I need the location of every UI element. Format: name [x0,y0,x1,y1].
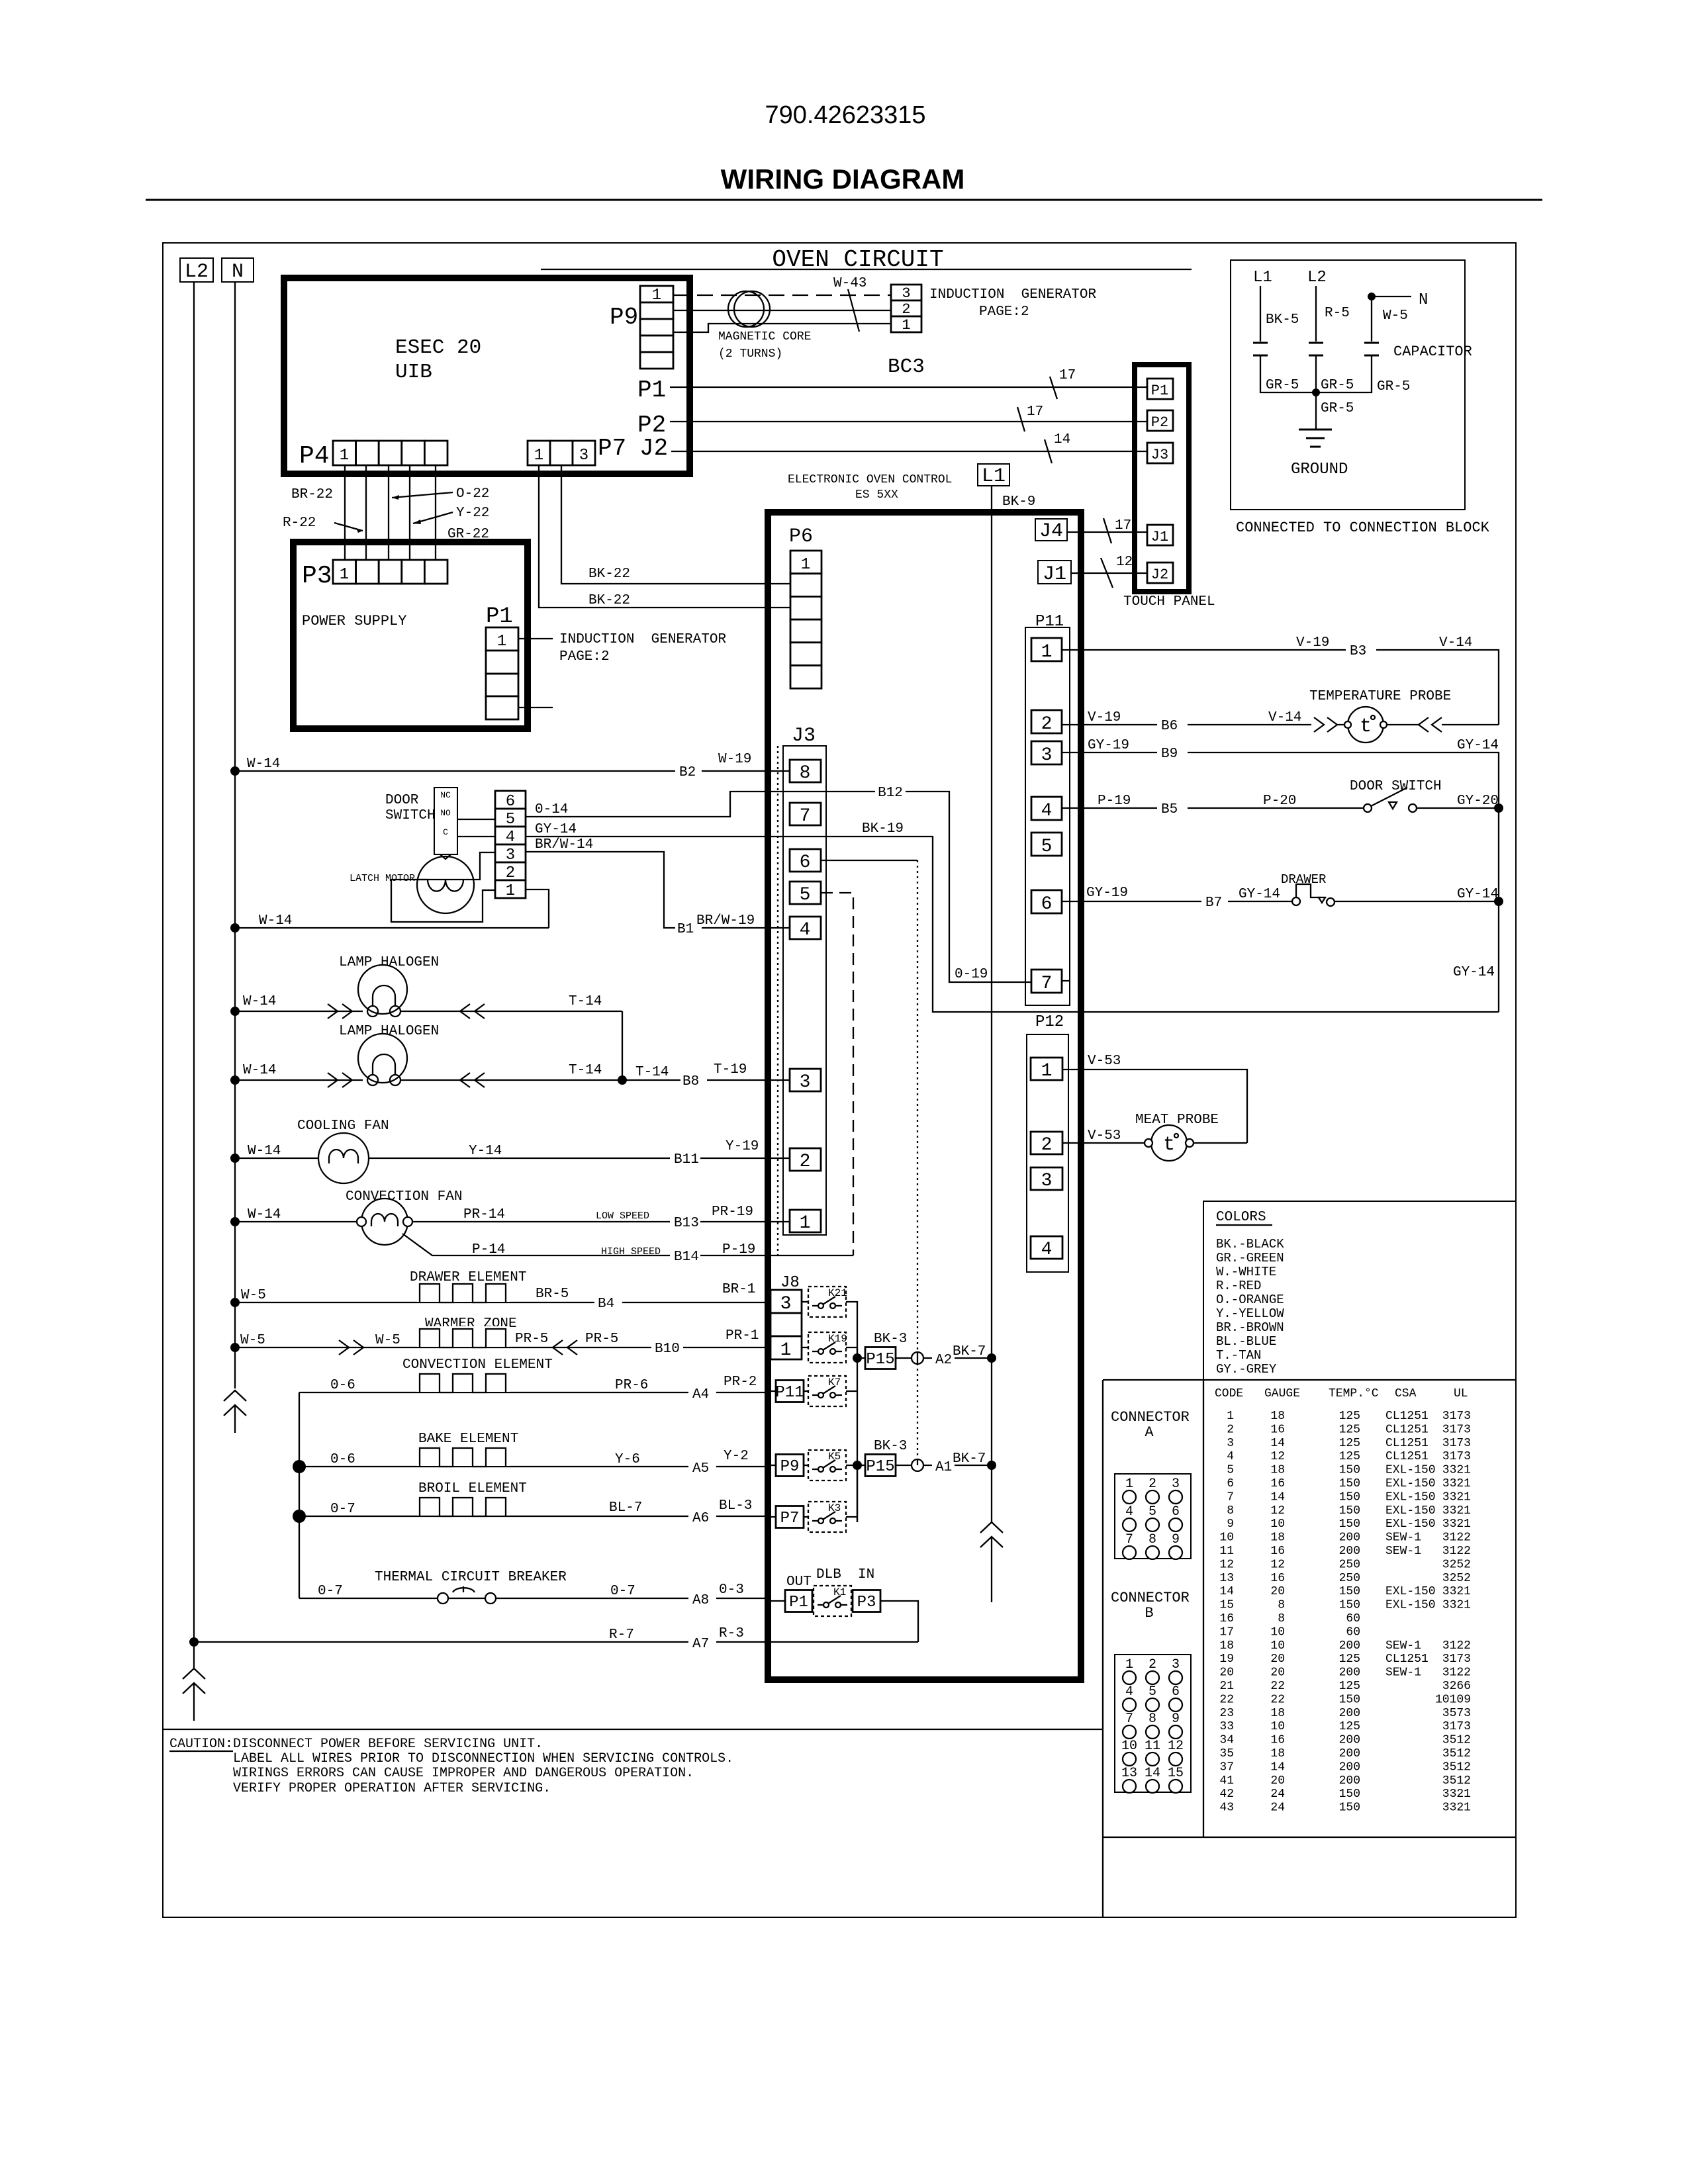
svg-text:1: 1 [800,1213,811,1234]
svg-text:0-7: 0-7 [318,1584,343,1599]
off-page arrow L2 rail [183,1668,205,1679]
wire W-14 latch motor row [235,927,549,929]
svg-text:ESEC 20: ESEC 20 [395,336,481,359]
svg-text:EXL-150: EXL-150 [1385,1518,1436,1531]
svg-text:17: 17 [1027,404,1043,420]
svg-text:B2: B2 [679,765,696,780]
svg-text:14: 14 [1145,1766,1160,1781]
svg-text:2: 2 [1227,1423,1234,1436]
svg-text:W-14: W-14 [243,1063,276,1078]
svg-text:R-22: R-22 [283,516,316,531]
svg-text:0-3: 0-3 [719,1582,744,1598]
svg-text:12: 12 [1219,1558,1234,1571]
svg-text:OUT: OUT [786,1574,812,1590]
svg-text:3512: 3512 [1442,1734,1471,1747]
svg-text:200: 200 [1339,1707,1360,1720]
wire N rail [234,282,236,1388]
svg-text:GY-14: GY-14 [1239,887,1280,902]
svg-text:PR-6: PR-6 [615,1378,648,1393]
svg-text:1: 1 [534,447,543,465]
node L1 box [978,464,1009,486]
svg-text:BL-3: BL-3 [719,1498,752,1514]
latch motor top link to door switch [440,854,451,859]
svg-text:P15: P15 [866,1458,894,1476]
svg-text:INDUCTION GENERATOR: INDUCTION GENERATOR [559,632,726,647]
svg-text:W.-WHITE: W.-WHITE [1216,1265,1276,1279]
svg-text:0-6: 0-6 [330,1452,355,1467]
svg-text:EXL-150: EXL-150 [1385,1490,1436,1504]
svg-text:CONNECTOR: CONNECTOR [1111,1590,1190,1606]
svg-text:BR-5: BR-5 [536,1287,569,1302]
svg-text:A5: A5 [692,1461,709,1477]
svg-text:P9: P9 [610,304,638,331]
svg-text:13: 13 [1121,1766,1137,1781]
svg-text:7: 7 [1227,1490,1234,1504]
svg-text:24: 24 [1270,1788,1285,1801]
svg-text:CSA: CSA [1395,1387,1417,1400]
svg-text:P15: P15 [866,1351,894,1369]
svg-text:1: 1 [1041,1061,1053,1081]
svg-text:0-7: 0-7 [610,1584,635,1599]
svg-text:ELECTRONIC OVEN CONTROL: ELECTRONIC OVEN CONTROL [788,473,952,486]
svg-text:16: 16 [1270,1734,1285,1747]
svg-text:12: 12 [1270,1450,1285,1463]
svg-text:250: 250 [1339,1558,1360,1571]
touch panel cell P2 [1147,410,1173,431]
svg-text:A8: A8 [692,1593,709,1608]
svg-text:3173: 3173 [1442,1720,1471,1733]
svg-text:TOUCH PANEL: TOUCH PANEL [1123,594,1215,610]
J3 cell 6 [790,849,821,872]
svg-text:B3: B3 [1350,644,1366,659]
svg-text:GR-5: GR-5 [1321,401,1354,416]
svg-text:8: 8 [800,763,811,784]
wire BK-22 (P7.2 to P6.2) [561,465,790,584]
svg-text:0-14: 0-14 [535,802,568,817]
svg-text:A2: A2 [935,1353,952,1368]
svg-text:12: 12 [1168,1739,1184,1754]
svg-text:13: 13 [1219,1572,1234,1585]
svg-text:3321: 3321 [1442,1518,1471,1531]
svg-text:3122: 3122 [1442,1639,1471,1653]
svg-text:Y-19: Y-19 [726,1139,759,1154]
wire P11.7 stub from 0-19 [1062,980,1070,981]
J3 cell 1 [790,1210,821,1232]
svg-text:WIRING DIAGRAM: WIRING DIAGRAM [721,163,965,195]
svg-text:8: 8 [1149,1532,1156,1547]
touch panel cell J2 [1147,563,1173,583]
svg-text:Y.-YELLOW: Y.-YELLOW [1216,1306,1284,1321]
svg-text:P-19: P-19 [1098,794,1131,809]
svg-text:1: 1 [1041,642,1053,662]
svg-text:BL-7: BL-7 [609,1500,642,1516]
svg-text:CL1251: CL1251 [1385,1450,1429,1463]
svg-text:P4: P4 [299,442,330,471]
svg-text:10: 10 [1270,1720,1285,1733]
svg-text:IN: IN [858,1567,874,1582]
svg-text:0-6: 0-6 [330,1378,355,1393]
svg-text:BR-1: BR-1 [722,1282,755,1297]
svg-text:LATCH MOTOR: LATCH MOTOR [350,873,415,884]
svg-text:t: t [1360,715,1372,738]
P12 cell 1 [1031,1058,1062,1080]
wire J3.6 to A-rows vertical [821,860,917,861]
svg-text:15: 15 [1219,1599,1234,1612]
svg-text:NC: NC [440,790,451,800]
svg-text:9: 9 [1172,1711,1180,1727]
svg-text:C: C [443,827,448,837]
svg-text:5: 5 [1041,837,1053,857]
wire BR/W-14 / B1 / BR/W-19 route (cell3 to J3.4) [526,852,790,928]
svg-text:2: 2 [800,1152,811,1172]
node J1 box [1038,561,1071,584]
svg-text:200: 200 [1339,1666,1360,1680]
svg-text:MEAT PROBE: MEAT PROBE [1135,1113,1219,1128]
svg-text:W-5: W-5 [1383,308,1408,324]
relay bus vertical [857,1358,858,1522]
wire W-43 pin2 [673,310,891,311]
svg-text:P-14: P-14 [472,1242,505,1257]
svg-text:K21: K21 [828,1287,847,1299]
svg-text:J3: J3 [792,725,816,747]
relay K21 (drawer element) [802,1301,808,1302]
svg-text:A: A [1145,1424,1154,1441]
svg-text:BK-7: BK-7 [953,1451,986,1467]
svg-text:3173: 3173 [1442,1410,1471,1423]
svg-text:3: 3 [1227,1437,1234,1450]
svg-text:DOOR SWITCH: DOOR SWITCH [1350,779,1442,794]
svg-text:6: 6 [1172,1684,1180,1700]
connector B pin grid [1115,1655,1191,1792]
wires GR-5 to ground bus [1260,355,1372,392]
svg-text:J1: J1 [1151,529,1168,545]
svg-text:UL: UL [1454,1387,1468,1400]
svg-text:8: 8 [1278,1599,1285,1612]
svg-text:18: 18 [1270,1707,1285,1720]
svg-text:5: 5 [1227,1464,1234,1477]
wires P4 to P3 (BR-22,R-22,O-22,Y-22,GR-22) [344,465,346,560]
relay K7 (convection element) [771,1390,776,1392]
svg-text:W-14: W-14 [248,1144,281,1159]
svg-text:B12: B12 [878,786,903,801]
J3 cell 8 [790,760,821,782]
svg-text:W-14: W-14 [248,1207,281,1222]
svg-text:PAGE:2: PAGE:2 [559,649,610,664]
svg-text:14: 14 [1270,1437,1285,1450]
svg-text:P11: P11 [775,1384,804,1402]
ground symbol [1315,392,1317,430]
slash 14 on J2 wire [1045,439,1052,463]
svg-text:LABEL ALL WIRES PRIOR TO DISCO: LABEL ALL WIRES PRIOR TO DISCONNECTION W… [233,1751,733,1766]
svg-text:DOOR: DOOR [385,793,419,808]
svg-text:BK-9: BK-9 [1002,494,1035,510]
svg-text:W-19: W-19 [718,752,751,767]
svg-text:125: 125 [1339,1720,1360,1733]
svg-text:1: 1 [1125,1477,1133,1492]
svg-text:16: 16 [1270,1572,1285,1585]
svg-text:T-14: T-14 [569,1063,602,1078]
svg-text:PR-1: PR-1 [726,1328,759,1343]
touch panel cell J3 [1147,443,1173,463]
svg-text:BK-5: BK-5 [1266,312,1299,328]
svg-text:22: 22 [1270,1693,1285,1706]
svg-text:3: 3 [800,1072,811,1093]
P11 cell 2 [1031,710,1062,733]
svg-text:T-14: T-14 [569,994,602,1009]
svg-text:EXL-150: EXL-150 [1385,1585,1436,1598]
wire L2 rail [193,282,195,1668]
J3 cell 3 [790,1069,821,1091]
connector induction generator (3 cells) [891,285,921,300]
svg-text:GROUND: GROUND [1291,461,1348,478]
P11 cell 6 [1031,890,1062,913]
svg-text:J4: J4 [1039,520,1063,543]
svg-text:BR/W-14: BR/W-14 [535,837,593,852]
svg-text:J3: J3 [1151,447,1168,463]
svg-text:B8: B8 [682,1074,699,1089]
svg-text:3: 3 [780,1294,792,1314]
svg-text:CL1251: CL1251 [1385,1423,1429,1436]
svg-text:1: 1 [652,287,661,304]
wire J3.5 dashed to B14 riser [821,893,853,1255]
svg-text:NO: NO [440,808,451,818]
svg-text:W-14: W-14 [259,913,292,929]
svg-text:GR-5: GR-5 [1377,379,1410,394]
svg-text:A4: A4 [692,1387,709,1402]
svg-text:CONVECTION FAN: CONVECTION FAN [346,1189,462,1205]
svg-text:BR.-BROWN: BR.-BROWN [1216,1320,1284,1335]
svg-text:200: 200 [1339,1531,1360,1545]
svg-text:7: 7 [1125,1711,1133,1727]
svg-text:W-43: W-43 [833,276,867,291]
J3 cell 7 [790,803,821,825]
svg-text:VERIFY PROPER OPERATION AFTER: VERIFY PROPER OPERATION AFTER SERVICING. [233,1781,551,1796]
svg-text:6: 6 [1172,1504,1180,1520]
wire cell1 right down to W-14 row [526,889,549,928]
svg-text:8: 8 [1227,1504,1234,1518]
wire W-43 pin3 with step [673,324,891,332]
svg-text:BK-22: BK-22 [588,593,630,608]
svg-text:K19: K19 [828,1333,847,1345]
svg-text:WIRINGS ERRORS CAN CAUSE IMPRO: WIRINGS ERRORS CAN CAUSE IMPROPER AND DA… [233,1766,694,1781]
svg-text:Y-2: Y-2 [724,1449,749,1464]
svg-text:7: 7 [1041,974,1053,994]
wire J4 to touch J1 with slash 17 [1067,531,1147,533]
svg-text:200: 200 [1339,1747,1360,1760]
svg-text:CONNECTED TO CONNECTION BLOCK: CONNECTED TO CONNECTION BLOCK [1236,520,1490,536]
svg-text:4: 4 [1041,801,1053,821]
svg-text:B1: B1 [677,922,694,937]
svg-text:T-14: T-14 [635,1065,669,1080]
svg-text:125: 125 [1339,1410,1360,1423]
svg-text:O.-ORANGE: O.-ORANGE [1216,1293,1284,1307]
svg-text:10109: 10109 [1435,1693,1471,1706]
svg-text:Y-22: Y-22 [456,506,489,521]
wire motor left loop to cell1 [391,880,495,922]
svg-text:125: 125 [1339,1653,1360,1666]
svg-text:1: 1 [1125,1657,1133,1672]
svg-text:GR.-GREEN: GR.-GREEN [1216,1251,1284,1265]
svg-text:1: 1 [340,566,349,584]
svg-text:P-20: P-20 [1263,794,1296,809]
svg-text:CAPACITOR: CAPACITOR [1393,343,1472,360]
svg-text:W-5: W-5 [241,1288,266,1303]
svg-text:BK.-BLACK: BK.-BLACK [1216,1237,1284,1251]
wire P11.3 GY-19 B9 GY-14 rail [1062,752,1499,1012]
svg-text:16: 16 [1219,1612,1234,1625]
wire P3 to A7 row [880,1601,918,1642]
svg-text:K1: K1 [833,1586,846,1598]
svg-text:200: 200 [1339,1774,1360,1788]
svg-text:T.-TAN: T.-TAN [1216,1348,1261,1363]
svg-text:9: 9 [1227,1518,1234,1531]
svg-text:GY-19: GY-19 [1086,886,1128,901]
svg-text:125: 125 [1339,1680,1360,1693]
svg-text:200: 200 [1339,1639,1360,1653]
svg-text:PR-14: PR-14 [463,1207,505,1222]
svg-text:3512: 3512 [1442,1774,1471,1788]
svg-text:150: 150 [1339,1518,1360,1531]
wire P11.1 V-19 B3 V-14 (temp probe top) [1062,650,1499,725]
svg-text:L1: L1 [1253,269,1272,287]
svg-text:2: 2 [1149,1477,1156,1492]
svg-text:P7: P7 [780,1510,800,1527]
wire BK-5 lead [1260,286,1261,341]
svg-text:3: 3 [579,447,588,465]
svg-text:3: 3 [1041,745,1053,766]
svg-text:24: 24 [1270,1801,1285,1815]
svg-text:EXL-150: EXL-150 [1385,1477,1436,1490]
wire P1.1 to INDUCTION GENERATOR PAGE:2 [518,638,553,639]
svg-text:20: 20 [1270,1653,1285,1666]
svg-text:1: 1 [506,882,515,900]
svg-text:GAUGE: GAUGE [1264,1387,1300,1400]
svg-text:L1: L1 [982,465,1006,488]
svg-text:BK-22: BK-22 [588,567,630,582]
svg-text:CODE: CODE [1215,1387,1243,1400]
svg-text:CONNECTOR: CONNECTOR [1111,1409,1190,1426]
svg-text:GR-5: GR-5 [1266,378,1299,393]
caution box top line [163,1729,1103,1730]
svg-text:23: 23 [1219,1707,1234,1720]
svg-text:10: 10 [1219,1531,1234,1545]
board ELECTRONIC OVEN CONTROL ES 5XX box [768,512,1081,1680]
svg-text:P1: P1 [1151,383,1168,399]
svg-text:J2: J2 [639,435,668,462]
node P15 (A2 row) [853,1353,862,1363]
svg-text:43: 43 [1219,1801,1234,1815]
svg-text:3321: 3321 [1442,1490,1471,1504]
svg-text:TEMPERATURE PROBE: TEMPERATURE PROBE [1309,689,1451,704]
svg-text:(2 TURNS): (2 TURNS) [718,347,782,361]
svg-text:EXL-150: EXL-150 [1385,1599,1436,1612]
svg-text:B10: B10 [655,1342,680,1357]
svg-text:7: 7 [1125,1532,1133,1547]
svg-text:B4: B4 [598,1297,614,1312]
svg-text:P7: P7 [598,435,626,462]
node P15 (A1 row) [853,1461,862,1470]
svg-text:W-14: W-14 [247,756,280,772]
svg-text:PR-2: PR-2 [724,1375,757,1390]
spec table box [1103,1379,1516,1381]
svg-text:GR-5: GR-5 [1321,378,1354,393]
wire L1/BK-9 rail [991,486,992,1522]
svg-text:CAUTION:DISCONNECT POWER BEFOR: CAUTION:DISCONNECT POWER BEFORE SERVICIN… [169,1737,543,1752]
svg-text:1: 1 [340,447,349,465]
svg-text:5: 5 [1149,1684,1156,1700]
svg-text:PR-5: PR-5 [515,1332,548,1347]
svg-text:GY-14: GY-14 [1457,738,1499,753]
svg-text:0-19: 0-19 [955,967,988,982]
svg-text:200: 200 [1339,1760,1360,1774]
svg-text:V-19: V-19 [1088,710,1121,725]
P12 cell 4 [1031,1236,1062,1259]
svg-text:4: 4 [1227,1450,1234,1463]
svg-text:9: 9 [1172,1532,1180,1547]
svg-text:3: 3 [902,285,910,302]
wire door NO to cell5 [457,819,495,820]
capacitor C3 [1364,342,1379,344]
svg-text:18: 18 [1270,1464,1285,1477]
svg-text:A6: A6 [692,1511,709,1526]
svg-text:3321: 3321 [1442,1477,1471,1490]
svg-text:17: 17 [1219,1625,1234,1639]
svg-text:P9: P9 [780,1458,800,1476]
svg-text:35: 35 [1219,1747,1234,1760]
svg-text:11: 11 [1219,1545,1234,1558]
svg-text:Y-6: Y-6 [615,1452,640,1467]
svg-text:2: 2 [1041,1135,1053,1156]
svg-text:3512: 3512 [1442,1760,1471,1774]
svg-text:K7: K7 [828,1377,841,1388]
connector door/latch 6..1 [495,791,526,809]
svg-text:5: 5 [1149,1504,1156,1520]
svg-text:P6: P6 [789,525,813,548]
svg-text:60: 60 [1346,1625,1360,1639]
node L2 box [180,258,213,282]
svg-text:CONVECTION ELEMENT: CONVECTION ELEMENT [402,1357,553,1373]
svg-text:150: 150 [1339,1585,1360,1598]
svg-text:J1: J1 [1043,563,1066,586]
svg-text:t: t [1163,1134,1175,1156]
svg-text:42: 42 [1219,1788,1234,1801]
P12 cell 3 [1031,1167,1062,1190]
P11 cell 1 [1031,638,1062,661]
svg-text:B13: B13 [674,1216,699,1231]
svg-text:3252: 3252 [1442,1558,1471,1571]
slash 17 on P1 wire [1050,377,1057,399]
svg-text:INDUCTION GENERATOR: INDUCTION GENERATOR [929,287,1096,302]
board POWER SUPPLY box [293,542,528,729]
svg-text:11: 11 [1145,1739,1160,1754]
wire door C to cell4 [457,836,495,837]
wire J1 to touch J2 with slash 12 [1071,572,1147,574]
P11 cell 5 [1031,833,1062,856]
svg-text:10: 10 [1121,1739,1137,1754]
relay K5 (bake) [771,1465,776,1466]
svg-text:P-19: P-19 [722,1242,755,1257]
svg-text:TEMP.°C: TEMP.°C [1329,1387,1379,1400]
wire W-5 lead + N [1372,296,1411,297]
wire P11.6 GY-19 B7 drawer GY-14 [1062,901,1499,902]
svg-text:P12: P12 [1035,1013,1064,1031]
wire P11.4 P-19 B5 P-20 door switch GY-20 [1062,807,1499,809]
svg-text:P2: P2 [1151,414,1168,431]
svg-text:22: 22 [1219,1693,1234,1706]
svg-text:3512: 3512 [1442,1747,1471,1760]
svg-text:BROIL ELEMENT: BROIL ELEMENT [418,1481,527,1496]
svg-text:MAGNETIC CORE: MAGNETIC CORE [718,330,811,343]
